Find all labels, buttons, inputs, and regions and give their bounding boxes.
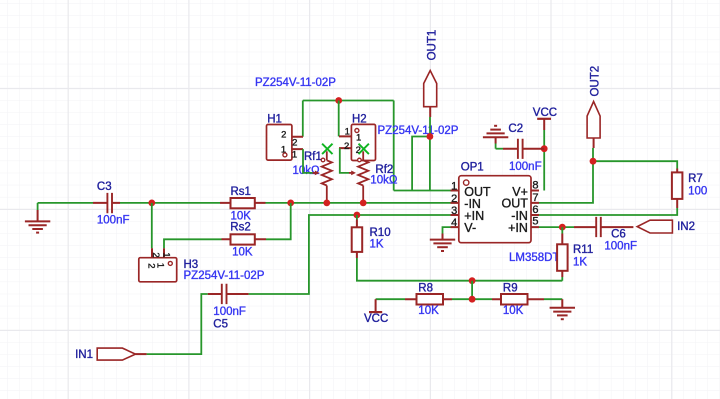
- svg-text:C3: C3: [97, 181, 112, 193]
- svg-text:8: 8: [532, 180, 538, 192]
- svg-text:1: 1: [161, 252, 172, 257]
- potentiometer Rf2: [349, 151, 368, 203]
- svg-text:C6: C6: [611, 228, 626, 240]
- resistor R10: [352, 215, 363, 258]
- svg-text:PZ254V-11-02P: PZ254V-11-02P: [184, 270, 265, 282]
- svg-text:100nF: 100nF: [97, 214, 130, 226]
- svg-text:2: 2: [150, 252, 161, 257]
- svg-text:1: 1: [292, 149, 297, 160]
- svg-text:1K: 1K: [370, 238, 384, 250]
- svg-text:R7: R7: [688, 173, 703, 185]
- wire R7 to op-amp pin6: [539, 208, 677, 215]
- svg-text:OP1: OP1: [461, 162, 484, 174]
- junction node R11 top: [559, 224, 566, 231]
- ground GND3: [550, 299, 575, 319]
- svg-text:OUT2: OUT2: [590, 66, 602, 97]
- svg-text:10kΩ: 10kΩ: [370, 174, 398, 186]
- capacitor C3: [93, 193, 120, 213]
- ground flipped at C2: [483, 126, 508, 149]
- svg-text:10kΩ: 10kΩ: [293, 165, 321, 177]
- wire C5 to op-amp +IN: [249, 215, 451, 294]
- svg-text:PZ254V-11-02P: PZ254V-11-02P: [255, 77, 336, 89]
- power VCC top: [537, 119, 551, 149]
- svg-text:7: 7: [532, 192, 538, 204]
- svg-text:OUT1: OUT1: [427, 30, 439, 61]
- wire VCC to op-amp V+: [543, 149, 545, 191]
- wire rail to H2 pin1: [338, 101, 340, 137]
- svg-text:5: 5: [532, 215, 538, 227]
- wire OUT1 node left branch: [412, 137, 430, 191]
- resistor R8: [405, 294, 452, 305]
- svg-text:3: 3: [451, 205, 457, 217]
- no-connect X on Rf2: [359, 144, 369, 154]
- wire H2 pin2 to Rf2 wiper: [340, 148, 349, 173]
- wire OUT2 node to R7: [593, 161, 677, 168]
- resistor R7: [672, 169, 683, 209]
- wire top rail: [303, 100, 394, 102]
- wire R8 to junction: [452, 298, 492, 300]
- svg-text:2: 2: [281, 130, 286, 141]
- ground GND2 at op-amp V-: [430, 227, 455, 251]
- svg-text:R11: R11: [573, 244, 593, 256]
- wire IN1 to C5: [147, 294, 208, 354]
- svg-text:C2: C2: [508, 123, 523, 135]
- junction node main/H3: [148, 200, 155, 207]
- svg-text:10K: 10K: [232, 246, 253, 258]
- svg-text:H2: H2: [352, 114, 367, 126]
- wire H1 pin1 to Rf1 wiper: [303, 149, 313, 173]
- svg-text:1: 1: [356, 133, 361, 144]
- no-connect X on Rf1: [322, 144, 332, 154]
- resistor R9: [492, 294, 544, 305]
- power VCC bottom: [369, 299, 405, 312]
- svg-text:C5: C5: [213, 318, 228, 330]
- wire OUT1 to node: [429, 117, 431, 137]
- wire main to H3 pin2: [151, 203, 153, 248]
- svg-text:100nF: 100nF: [604, 240, 637, 252]
- svg-text:100: 100: [688, 186, 707, 198]
- header H3: [139, 248, 177, 282]
- capacitor C5: [208, 284, 249, 304]
- junction node rail/H2: [335, 97, 342, 104]
- junction node OUT1: [427, 133, 434, 140]
- port flag OUT1: [424, 71, 437, 118]
- svg-text:6: 6: [532, 204, 538, 216]
- wire rail down to op-amp OUT1 wire: [393, 101, 395, 191]
- port flag OUT2: [587, 102, 600, 149]
- resistor Rs2: [222, 234, 267, 244]
- svg-text:IN2: IN2: [677, 221, 695, 233]
- svg-text:Rf1: Rf1: [304, 151, 322, 163]
- svg-text:10K: 10K: [418, 305, 439, 317]
- resistor R11: [557, 227, 568, 281]
- junction node C2/VCC: [541, 145, 548, 152]
- svg-text:2: 2: [344, 141, 349, 152]
- wire H3 pin1 to Rs2: [164, 239, 222, 248]
- junction node R10 top: [354, 212, 361, 219]
- svg-text:100nF: 100nF: [509, 161, 542, 173]
- svg-text:V-: V-: [464, 221, 476, 235]
- wire op-amp pin1 net: [394, 190, 451, 192]
- svg-text:4: 4: [451, 217, 457, 229]
- wire rail to H1 pin2: [302, 101, 304, 137]
- wire OUT2 node to op-amp pin7: [539, 161, 593, 203]
- junction node bottom rail: [469, 277, 476, 284]
- svg-text:PZ254V-11-02P: PZ254V-11-02P: [378, 125, 459, 137]
- op-amp OP1: [451, 176, 540, 243]
- svg-text:2: 2: [451, 193, 457, 205]
- resistor Rs1: [220, 198, 266, 208]
- wire R10 bottom rail: [357, 258, 562, 281]
- potentiometer Rf1: [313, 151, 332, 203]
- wire OUT2 to node: [592, 148, 594, 161]
- junction node R8/R9: [469, 296, 476, 303]
- svg-text:1: 1: [451, 181, 457, 193]
- svg-text:Rs1: Rs1: [231, 186, 251, 198]
- svg-text:R8: R8: [418, 283, 433, 295]
- svg-text:R9: R9: [503, 283, 518, 295]
- wire op-amp pin5 net: [539, 226, 574, 228]
- ground GND1: [25, 203, 50, 233]
- junction node OUT2: [590, 158, 597, 165]
- svg-text:VCC: VCC: [533, 107, 557, 119]
- wire R9 to ground: [544, 298, 562, 300]
- wire OUT1 node down branch: [429, 137, 431, 191]
- wire main net horizontal: [38, 202, 451, 204]
- junction node Rf2 bottom: [360, 200, 367, 207]
- header H2: [339, 124, 376, 160]
- wire Rs2 branch: [266, 203, 291, 239]
- svg-text:IN1: IN1: [75, 349, 93, 361]
- port flag IN2: [637, 220, 672, 233]
- svg-text:1: 1: [155, 263, 166, 268]
- wire bottom rail to R8/R9: [471, 281, 473, 300]
- svg-text:LM358DT: LM358DT: [509, 252, 560, 264]
- svg-text:Rs2: Rs2: [230, 221, 250, 233]
- capacitor C2: [496, 139, 545, 159]
- header H1: [267, 125, 304, 161]
- svg-text:10K: 10K: [503, 305, 524, 317]
- svg-text:VCC: VCC: [364, 313, 388, 325]
- port flag IN1: [97, 348, 146, 360]
- junction node main/Rs2: [287, 200, 294, 207]
- capacitor C6: [574, 217, 633, 237]
- svg-text:1: 1: [345, 126, 350, 137]
- junction node Rf1 bottom: [323, 200, 330, 207]
- svg-text:100nF: 100nF: [213, 306, 246, 318]
- svg-text:H1: H1: [267, 114, 282, 126]
- svg-text:1K: 1K: [573, 256, 587, 268]
- svg-text:+IN: +IN: [508, 221, 528, 235]
- svg-text:2: 2: [292, 138, 297, 149]
- svg-text:R10: R10: [370, 227, 391, 239]
